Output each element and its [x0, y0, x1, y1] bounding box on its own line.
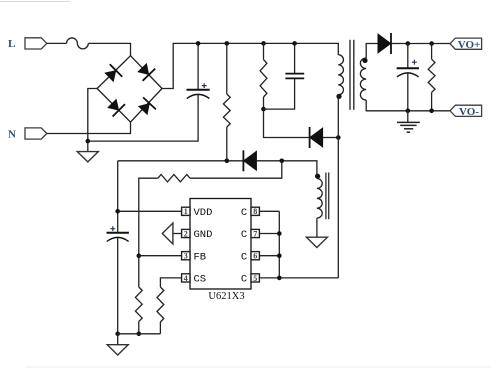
junction rail-C1 — [196, 41, 201, 46]
aux core — [326, 173, 329, 220]
bridge edge L-T — [97, 56, 130, 89]
bridge edge L-B — [97, 89, 130, 123]
svg-text:FB: FB — [194, 251, 207, 263]
aux winding — [317, 179, 322, 219]
svg-text:L: L — [8, 38, 15, 50]
bridge diode upper-right — [138, 63, 156, 81]
wire DC+ rail — [162, 43, 338, 88]
capacitor C4 VDD — [107, 233, 129, 242]
junction out-R5 — [429, 41, 434, 46]
wire pin5 to drain — [259, 277, 338, 279]
wire collector bus — [278, 211, 280, 278]
wire bridge left to ground — [88, 89, 97, 152]
diode D5 clamp — [310, 127, 323, 148]
junction rail-R5 bottom — [429, 109, 434, 114]
phase dot primary — [336, 94, 341, 99]
wire ground stub — [117, 334, 119, 345]
wire C4 bottom lead — [117, 237, 119, 333]
wire R2 top lead — [263, 43, 265, 59]
connector tag VO+ — [450, 38, 482, 51]
svg-text:C: C — [241, 251, 247, 263]
junction rail-C2 — [292, 41, 297, 46]
svg-text:VO-: VO- — [459, 106, 479, 118]
IC pin labels — [194, 207, 248, 286]
svg-text:VO+: VO+ — [458, 39, 481, 51]
IC right pin boxes 5-8 — [251, 207, 259, 283]
wire R1 top lead — [226, 43, 228, 94]
bridge diode lower-right — [138, 97, 156, 114]
wire pin7 stub — [259, 233, 279, 235]
svg-text:C: C — [241, 207, 247, 219]
wire secondary bottom rail — [366, 100, 450, 111]
svg-text:1: 1 — [184, 207, 188, 216]
wire pin1 VDD — [118, 210, 182, 212]
wire ground rail — [118, 333, 161, 335]
plus sign C1 — [202, 83, 207, 88]
wire pin8 stub — [259, 210, 279, 212]
svg-text:6: 6 — [253, 252, 257, 261]
junction bus pin5 — [277, 276, 282, 281]
svg-text:N: N — [8, 128, 16, 140]
junction rail-R1 — [225, 41, 230, 46]
connector tag N — [25, 128, 47, 139]
bridge edge T-R — [131, 56, 163, 89]
wire VDD line — [118, 160, 244, 162]
wire C3 top lead — [407, 44, 409, 69]
bridge diode lower-left — [108, 99, 126, 117]
diode D7 VDD rectifier — [243, 150, 256, 171]
connector tag VO- — [450, 105, 482, 118]
svg-text:CS: CS — [194, 274, 207, 286]
wire primary bottom to collector — [337, 95, 339, 278]
artifact top rule — [0, 1, 70, 3]
wire R2 bottom lead — [263, 97, 265, 109]
wire pin3 FB — [139, 255, 182, 257]
wire C3 bottom lead — [407, 73, 409, 111]
plus sign C3 — [412, 60, 417, 65]
wire clamp to diode — [264, 109, 310, 137]
svg-text:5: 5 — [253, 274, 257, 283]
wire L to fuse — [47, 42, 67, 44]
bridge edge B-R — [131, 89, 163, 123]
wire R5 top lead — [431, 44, 433, 60]
junction clamp RC — [261, 107, 266, 112]
wire R4 bottom lead — [138, 322, 140, 334]
wire R6 bottom lead — [159, 322, 161, 334]
wire pin4 CS — [160, 278, 181, 287]
fuse F1 — [67, 38, 89, 49]
junction gnd rail C4 — [115, 332, 120, 337]
transformer core — [350, 40, 354, 110]
wire DC- rail — [88, 94, 198, 141]
junction gnd rail R4 — [137, 332, 142, 337]
svg-text:C: C — [241, 274, 247, 286]
svg-text:2: 2 — [184, 229, 188, 238]
plus sign C4 — [110, 226, 115, 231]
transformer primary winding — [338, 55, 343, 95]
wire pin6 stub — [259, 255, 279, 257]
diode D6 output — [378, 33, 391, 54]
capacitor C2 clamp — [285, 74, 304, 79]
svg-text:GND: GND — [194, 229, 213, 241]
junction out-C3 — [406, 41, 411, 46]
resistor R3 feedback — [158, 175, 190, 182]
wire fuse to bridge top — [88, 43, 130, 55]
junction drain-clamp — [336, 135, 341, 140]
resistor R5 load — [428, 59, 435, 92]
junction aux node — [280, 159, 285, 164]
wire D7 anode to aux — [257, 161, 317, 179]
artifact bottom rule — [26, 366, 491, 368]
junction bus pin6 — [277, 253, 282, 258]
wire C2 bottom lead — [264, 78, 295, 109]
wire D6 to VO+ — [391, 43, 450, 45]
ground primary input — [77, 152, 98, 162]
junction rail-C3 bottom — [406, 109, 411, 114]
connector tag L — [25, 38, 47, 49]
wire R3 to FB column — [139, 178, 158, 287]
ground aux — [306, 237, 327, 247]
junction FB node — [137, 253, 142, 258]
wire secondary top — [366, 44, 380, 59]
wire C2 top lead — [294, 43, 296, 73]
junction DC- node — [86, 139, 91, 144]
wire R5 bottom lead — [431, 92, 433, 110]
junction R1-VDD line — [225, 159, 230, 164]
ground IC — [107, 345, 128, 355]
svg-text:U621X3: U621X3 — [208, 291, 244, 302]
svg-text:VDD: VDD — [194, 207, 213, 219]
IC U1 body — [190, 199, 251, 290]
svg-text:C: C — [241, 229, 247, 241]
junction rail-R2 — [261, 41, 266, 46]
junction VDD node — [115, 209, 120, 214]
phase dot aux — [315, 174, 320, 179]
wire R1 bottom lead — [226, 127, 228, 161]
resistor R6 CS — [157, 287, 164, 322]
GND arrow pin2 — [162, 223, 173, 244]
wire aux bottom lead — [316, 218, 318, 237]
capacitor C3 output — [397, 68, 419, 77]
wire D5 anode — [323, 137, 339, 139]
bridge diode upper-left — [105, 64, 123, 82]
junction bus pin7 — [277, 231, 282, 236]
resistor R4 FB lower — [135, 287, 142, 322]
capacitor C1 — [187, 90, 210, 99]
wire VDD column — [117, 161, 119, 233]
transformer secondary winding — [360, 58, 366, 100]
svg-text:8: 8 — [253, 207, 257, 216]
svg-text:4: 4 — [184, 274, 188, 283]
resistor R2 clamp — [260, 60, 267, 97]
resistor R1 startup — [223, 94, 230, 127]
wire aux to R3 — [190, 161, 282, 178]
ground earth output — [397, 111, 420, 132]
svg-text:3: 3 — [184, 252, 188, 261]
wire C1 top lead — [197, 43, 199, 89]
phase dot secondary — [362, 58, 367, 63]
wire N to bridge bottom — [47, 122, 131, 133]
svg-text:7: 7 — [253, 229, 257, 238]
wire pin2 GND stub — [173, 233, 182, 235]
IC left pin boxes 1-4 — [182, 207, 190, 283]
